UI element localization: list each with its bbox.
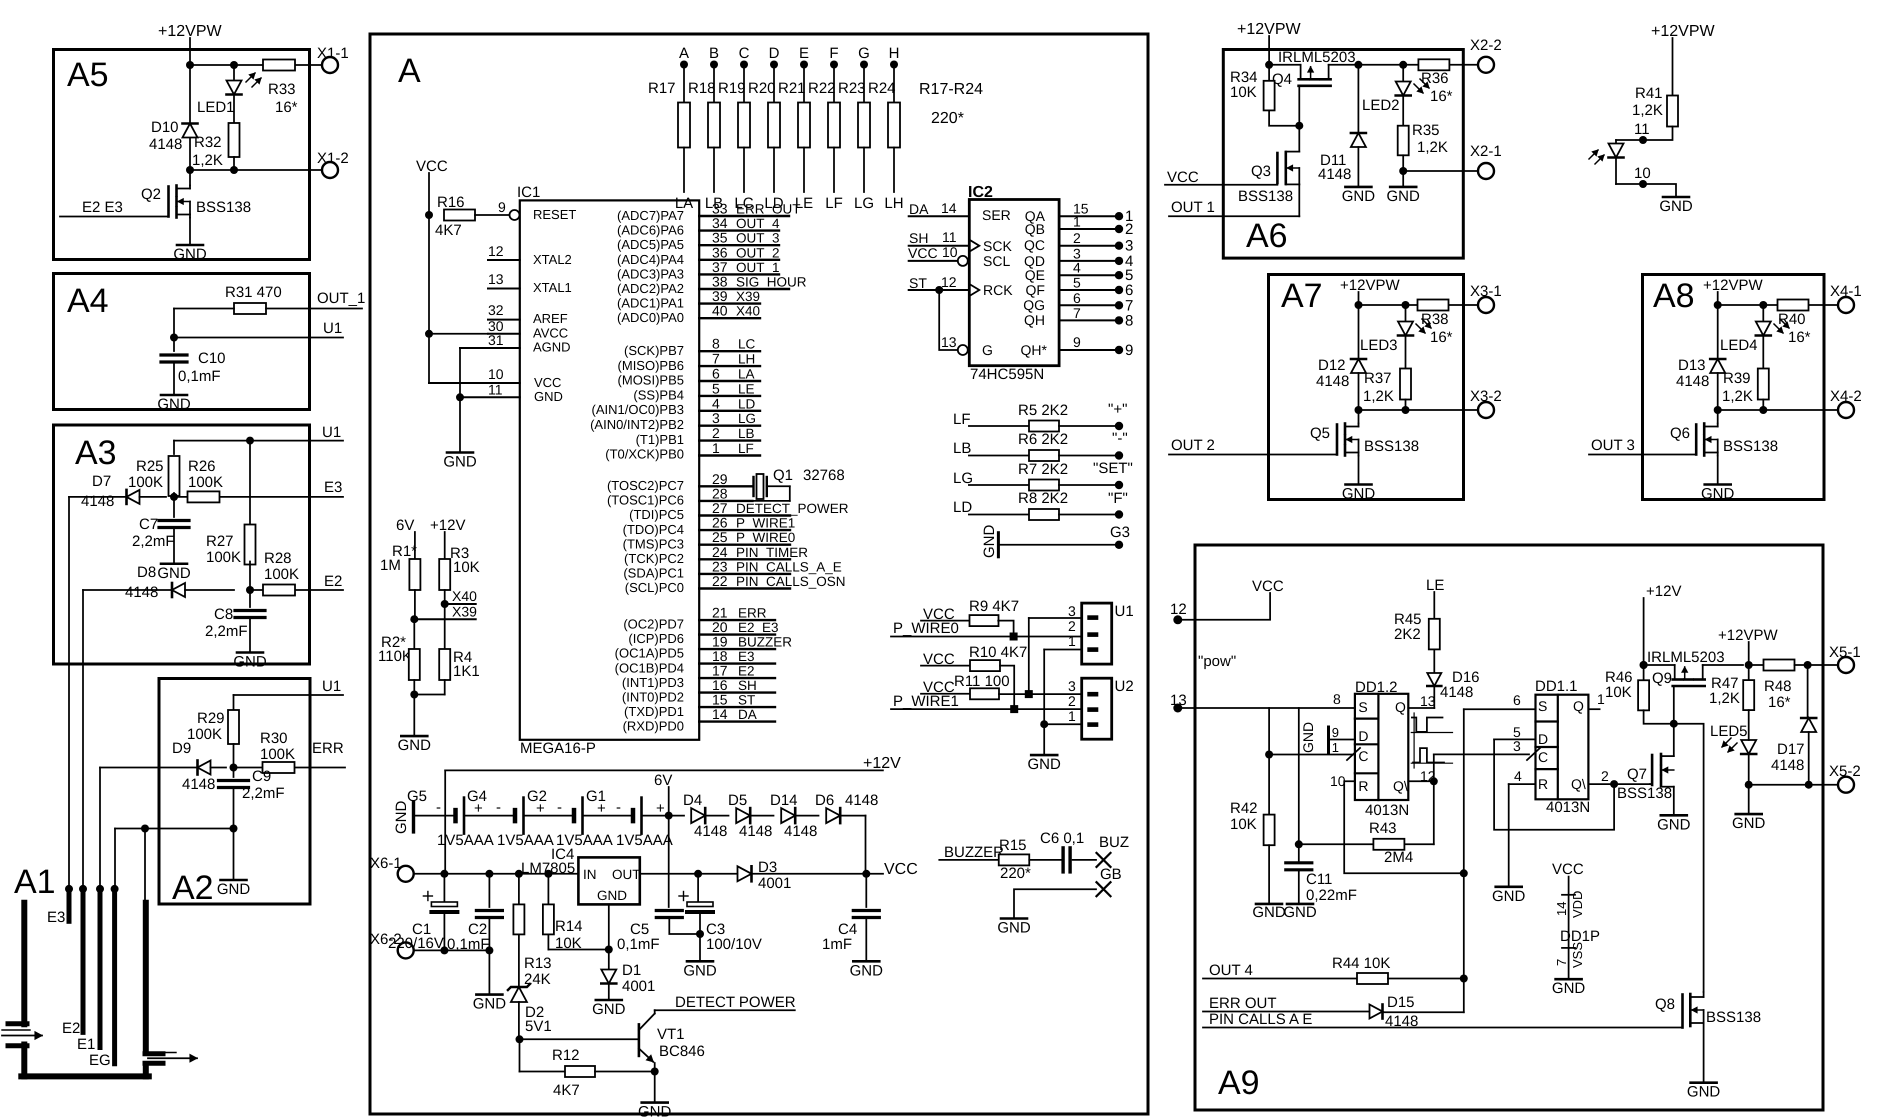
svg-text:PIN CALLS A E: PIN CALLS A E [1209,1011,1312,1028]
svg-text:3: 3 [712,410,720,426]
svg-text:4K7: 4K7 [435,222,462,239]
svg-text:4148: 4148 [182,776,215,793]
wire gate node to Q8 gate column [1674,724,1704,992]
svg-text:X39: X39 [736,289,760,304]
svg-text:RESET: RESET [533,207,576,222]
svg-text:+12V: +12V [430,517,465,534]
IC1 port A pin lines [699,215,789,217]
svg-text:R12: R12 [552,1047,580,1064]
wire C3 bottom junction [699,912,701,961]
terminal BUZ [1097,853,1111,867]
ground C11 [1287,903,1313,906]
ground Q7 [1661,814,1687,817]
svg-text:OUT_1: OUT_1 [317,290,365,307]
svg-text:LG: LG [738,411,756,426]
svg-text:100K: 100K [187,726,222,743]
svg-text:AGND: AGND [533,340,571,355]
svg-text:PIN_CALLS_A_E: PIN_CALLS_A_E [736,559,842,574]
wire DD1.2 Qb to R43/C-line [1408,780,1434,782]
svg-text:P_WIRE1: P_WIRE1 [893,693,959,710]
svg-text:100K: 100K [188,474,223,491]
wire R9 to pin2 [998,621,1013,637]
svg-text:6: 6 [1073,290,1081,306]
svg-text:D7: D7 [92,473,111,490]
svg-text:R10 4K7: R10 4K7 [969,644,1027,661]
connector U2 [1082,678,1112,739]
svg-text:D: D [769,45,780,62]
svg-text:+12VPW: +12VPW [1651,23,1715,40]
svg-text:GND: GND [592,1001,626,1018]
block A4 box [54,274,310,410]
ground U-connectors [1031,754,1057,757]
resistor R13 [518,874,520,905]
resistor R16 [425,211,433,219]
resistor R37 [1400,369,1411,400]
svg-text:1: 1 [1597,691,1605,707]
IC2 output QA-QH pins [1059,215,1114,217]
wire 13 branch to R43 node [1298,708,1300,844]
svg-text:(TCK)PC2: (TCK)PC2 [624,551,684,566]
svg-text:10K: 10K [1605,684,1632,701]
transistor Q8 BSS138 [1681,995,1684,1028]
svg-text:4148: 4148 [739,823,772,840]
svg-text:VCC: VCC [534,375,561,390]
svg-text:SIG_HOUR: SIG_HOUR [736,275,807,290]
capacitor C9 [233,768,235,778]
svg-text:10K: 10K [1230,816,1257,833]
svg-text:SH: SH [909,230,928,246]
wire R11 to U2 pin3 [999,693,1082,695]
svg-text:P_WIRE0: P_WIRE0 [736,530,795,545]
svg-text:D: D [1358,728,1368,744]
svg-text:100/10V: 100/10V [706,936,762,953]
svg-text:R27: R27 [206,533,234,550]
svg-text:3: 3 [1513,738,1521,754]
svg-text:SER: SER [982,207,1011,223]
svg-text:C7: C7 [139,516,158,533]
svg-text:4148: 4148 [1318,166,1351,183]
svg-text:2,2mF: 2,2mF [205,623,248,640]
svg-text:1K1: 1K1 [453,663,480,680]
wire D9 to A1/E1 [100,767,197,769]
wire C line to DD1.1 [1434,753,1529,755]
svg-text:(ADC3)PA3: (ADC3)PA3 [617,266,684,281]
ground D11 [1345,186,1371,189]
svg-text:R25: R25 [136,458,164,475]
svg-text:6V: 6V [396,517,414,534]
svg-text:P_WIRE0: P_WIRE0 [893,620,959,637]
svg-text:SCK: SCK [983,238,1012,254]
wire Q9 gate down [1673,686,1675,724]
svg-text:GND: GND [981,525,998,559]
svg-text:+12V: +12V [1646,583,1681,600]
svg-text:(ADC6)PA6: (ADC6)PA6 [617,223,684,238]
clock slash DD1.2 C [1347,748,1360,760]
svg-text:LD: LD [738,396,756,411]
resistor R29 [233,695,235,710]
svg-text:GND: GND [1701,486,1735,503]
svg-text:R38: R38 [1421,311,1449,328]
svg-text:1,2K: 1,2K [1363,388,1394,405]
svg-text:1mF: 1mF [822,936,852,953]
pin 30 AVCC [488,333,520,335]
svg-text:U1: U1 [322,424,341,441]
svg-text:GND: GND [157,565,191,582]
svg-text:6: 6 [712,366,720,382]
wire X6-1 rail [414,873,579,875]
ground C4 [865,918,867,961]
svg-text:VDD: VDD [1570,891,1585,918]
svg-text:OUT: OUT [612,867,641,882]
svg-text:6V: 6V [654,772,672,789]
wire R4 to R2 junction [414,694,444,696]
svg-text:C: C [1358,748,1368,764]
svg-text:7: 7 [1073,305,1081,321]
svg-text:ERR OUT: ERR OUT [1209,995,1277,1012]
resistor R40 [1778,300,1809,311]
svg-text:R20: R20 [748,80,776,97]
wire D8 to A1/E2 [83,589,171,591]
svg-text:LF: LF [953,411,971,428]
svg-text:E2: E2 [62,1020,80,1037]
svg-text:X6-1: X6-1 [370,855,402,872]
svg-text:100K: 100K [260,746,295,763]
wire U1 pin3 to R11 net [1029,617,1082,619]
svg-text:C: C [739,45,750,62]
pin 31 AGND [460,347,520,349]
ground C7 [173,528,175,564]
svg-text:LB: LB [738,426,755,441]
svg-text:R37: R37 [1364,370,1392,387]
svg-text:X39: X39 [452,604,477,620]
svg-text:39: 39 [712,288,728,304]
wire DD1.1 R to GND [1508,784,1510,887]
waveform glyph C [1413,748,1444,762]
svg-text:(AIN0/INT2)PB2: (AIN0/INT2)PB2 [590,417,684,432]
svg-text:X4-1: X4-1 [1830,283,1862,300]
svg-text:LH: LH [884,195,903,212]
LED receiver (photo) diode [1615,140,1617,143]
svg-text:R44 10K: R44 10K [1332,955,1390,972]
svg-text:GND: GND [1492,888,1526,905]
diode D17 4148 [1807,665,1809,717]
wire +12V riser to X6-1 rail [444,770,446,873]
svg-text:1: 1 [1068,633,1076,649]
svg-text:LA: LA [738,367,755,382]
svg-text:-: - [496,799,501,816]
resistor R35 [1398,126,1409,156]
svg-text:LH: LH [738,352,755,367]
svg-text:11: 11 [488,382,503,398]
svg-text:34: 34 [712,215,728,231]
svg-text:A3: A3 [75,434,117,472]
svg-text:(AIN1/OC0)PB3: (AIN1/OC0)PB3 [592,402,684,417]
svg-text:EG: EG [89,1052,111,1069]
svg-text:2: 2 [1073,230,1081,246]
svg-text:2M4: 2M4 [1384,849,1413,866]
svg-text:GND: GND [850,962,884,979]
svg-text:100K: 100K [128,474,163,491]
svg-text:GND: GND [217,881,251,898]
svg-text:(T0/XCK)PB0: (T0/XCK)PB0 [605,447,684,462]
svg-text:VCC: VCC [1167,169,1199,186]
svg-text:(SCK)PB7: (SCK)PB7 [624,343,684,358]
pin 12 XTAL2 [488,259,520,261]
svg-text:R18: R18 [688,80,716,97]
svg-text:(TDO)PC4: (TDO)PC4 [623,522,684,537]
svg-text:16*: 16* [1430,329,1453,346]
svg-text:X1-2: X1-2 [317,150,349,167]
LED LED3 [1405,305,1407,321]
svg-text:5: 5 [712,380,720,396]
svg-text:+: + [474,800,483,817]
wire GB to GND [1014,889,1096,918]
ground Q6 [1717,456,1719,485]
svg-text:10: 10 [942,244,958,260]
svg-text:E3: E3 [738,649,755,664]
electrode E3 [67,889,72,921]
svg-text:BSS138: BSS138 [196,199,251,216]
svg-text:LF: LF [825,195,843,212]
svg-text:8: 8 [712,336,720,352]
svg-text:E2: E2 [324,573,342,590]
svg-text:8: 8 [1125,312,1133,329]
wire DD1.1 Qb to Q7 gate [1650,783,1652,785]
wire DD1.2 R pin routing [1344,781,1464,873]
wire R35 to X2-1 [1399,167,1407,175]
svg-text:(OC1B)PD4: (OC1B)PD4 [615,660,684,675]
svg-text:DA: DA [909,201,929,217]
svg-text:5: 5 [1073,275,1081,291]
svg-text:GND: GND [534,389,563,404]
resistor R3 [444,532,446,559]
svg-text:0,1mF: 0,1mF [447,936,490,953]
tank left wall [21,903,27,1025]
svg-text:S: S [1358,699,1367,715]
svg-text:110K: 110K [378,648,412,665]
IC2 74HC595N body [969,200,1059,366]
svg-text:P_WIRE1: P_WIRE1 [736,516,795,531]
wire E3 row [170,493,178,501]
svg-text:1: 1 [1073,214,1081,230]
ground A4 [173,362,175,395]
ground DD1P [1556,978,1582,981]
svg-text:R: R [1538,776,1548,792]
svg-text:Q2: Q2 [141,186,161,203]
svg-text:GND: GND [1732,815,1766,832]
svg-text:2: 2 [1068,618,1076,634]
LED LED4 [1762,305,1764,321]
ground C3/C5 [687,960,713,963]
svg-text:IC1: IC1 [517,184,540,201]
wire D3 to VCC [753,873,884,875]
svg-text:D13: D13 [1678,357,1706,374]
svg-text:+12VPW: +12VPW [1340,277,1400,294]
resistor R33 [263,60,295,71]
ground C2 [488,918,490,995]
svg-text:C11: C11 [1306,871,1332,888]
svg-text:X5-1: X5-1 [1829,644,1861,661]
svg-text:DETECT POWER: DETECT POWER [675,994,796,1011]
svg-text:11: 11 [1634,121,1650,138]
svg-text:E2: E2 [738,664,755,679]
wire R10 to P_WIRE1 junction [1000,666,1014,710]
svg-text:BUZZER: BUZZER [738,635,792,650]
svg-text:R14: R14 [555,918,583,935]
svg-text:29: 29 [712,471,728,487]
svg-text:R17-R24: R17-R24 [919,81,983,98]
svg-text:220*: 220* [931,110,964,127]
block A5 box [54,50,310,260]
svg-text:OUT 3: OUT 3 [1591,437,1635,454]
svg-text:(INT0)PD2: (INT0)PD2 [622,690,684,705]
svg-text:3: 3 [1068,603,1076,619]
svg-text:(MOSI)PB5: (MOSI)PB5 [618,373,684,388]
svg-text:(T1)PB1: (T1)PB1 [636,432,684,447]
svg-text:(ADC4)PA4: (ADC4)PA4 [617,252,684,267]
svg-text:-: - [616,799,621,816]
svg-text:GND: GND [473,996,507,1013]
svg-text:9: 9 [1125,342,1133,359]
connector X5-2 [1838,777,1854,793]
svg-text:"SET": "SET" [1093,460,1133,477]
svg-text:23: 23 [712,558,728,574]
tank right wall [143,903,149,1052]
svg-text:Q: Q [1395,699,1406,715]
pin 14 VDD DD1P [1562,894,1575,896]
svg-text:ERR: ERR [312,740,344,757]
connector X3-1 [1478,297,1494,313]
svg-text:13: 13 [941,334,957,350]
wire LM7805 GND pin down [608,905,610,970]
svg-text:24: 24 [712,544,728,560]
svg-text:4: 4 [1514,768,1522,784]
svg-text:Q3: Q3 [1251,163,1271,180]
svg-text:D12: D12 [1318,357,1346,374]
svg-text:GND: GND [1657,816,1691,833]
svg-text:LED3: LED3 [1360,337,1398,354]
svg-text:4: 4 [712,395,720,411]
svg-text:26: 26 [712,515,728,531]
ground C8 [249,618,251,653]
ground R42 [1256,903,1282,906]
svg-text:31: 31 [488,332,504,348]
svg-text:0,1mF: 0,1mF [178,368,221,385]
block A7 box [1269,275,1464,500]
svg-text:(OC2)PD7: (OC2)PD7 [623,617,684,632]
svg-text:LF: LF [738,441,754,456]
svg-text:VSS: VSS [1570,942,1585,968]
svg-text:D15: D15 [1387,994,1415,1011]
svg-text:QG: QG [1023,297,1045,313]
wire ST to G pin [939,290,958,350]
ground VT1 [642,1101,668,1104]
svg-text:13: 13 [488,271,504,287]
diode D3 [738,866,752,881]
svg-text:OUT 4: OUT 4 [1209,962,1253,979]
svg-text:4148: 4148 [694,823,727,840]
svg-text:GND: GND [597,888,627,903]
wire U1 to R25 top [174,440,250,442]
svg-text:R28: R28 [264,550,292,567]
svg-text:16*: 16* [275,99,298,116]
wire D16 to DD1.2 Q [1433,687,1435,708]
svg-text:D: D [1538,731,1548,747]
pin 13 XTAL1 [488,288,520,290]
svg-text:G3: G3 [1110,524,1130,541]
ground A5 [189,218,191,246]
svg-text:G5: G5 [407,788,427,805]
svg-text:BUZ: BUZ [1099,834,1129,851]
wire A8 top rail [1714,301,1722,309]
diode D13 4148 [1717,305,1719,358]
svg-text:GND: GND [1659,198,1693,215]
wire AGND-GND join [459,348,461,397]
svg-text:4001: 4001 [758,875,791,892]
capacitor C1 220/16V [443,874,445,901]
svg-text:A6: A6 [1246,217,1288,255]
connector X2-1 [1478,163,1494,179]
resistor R14 [547,874,549,905]
pin 11 GND [460,396,520,398]
svg-text:C6 0,1: C6 0,1 [1040,830,1084,847]
ground buzzer [1001,917,1027,920]
svg-text:U1: U1 [322,678,341,695]
wire X5-2 rail [1745,781,1753,789]
transistor Q5 BSS138 [1358,410,1360,424]
ground Q5 [1358,456,1360,485]
wire LM7805 OUT rail [640,873,738,875]
svg-text:38: 38 [712,274,728,290]
diode D15 4148 [1370,1005,1383,1019]
svg-text:A7: A7 [1281,277,1323,315]
svg-text:+12V: +12V [863,755,901,772]
svg-text:9: 9 [1332,725,1339,740]
svg-text:1,2K: 1,2K [1417,139,1448,156]
svg-text:RCK: RCK [983,282,1013,298]
wire A6 top rail left [1265,61,1273,69]
svg-text:A5: A5 [67,56,109,94]
svg-text:C10: C10 [198,350,226,367]
svg-text:GND: GND [683,962,717,979]
transistor Q3 BSS138 [1286,151,1300,153]
wire +12V to Q9 node [1640,661,1648,669]
svg-text:BSS138: BSS138 [1706,1009,1761,1026]
svg-text:27: 27 [712,500,728,516]
svg-text:(MISO)PB6: (MISO)PB6 [618,358,684,373]
capacitor C8 [249,590,251,607]
svg-text:32768: 32768 [803,467,845,484]
svg-text:D9: D9 [172,740,191,757]
svg-text:100K: 100K [206,549,241,566]
wire Q9 drain to +12VPW node [1703,664,1743,666]
diode D16 4148 [1433,649,1435,672]
svg-text:XTAL1: XTAL1 [533,280,572,295]
svg-text:-: - [436,799,441,816]
resistor R36 [1418,59,1449,70]
svg-text:(TOSC2)PC7: (TOSC2)PC7 [607,478,684,493]
svg-text:(SDA)PC1: (SDA)PC1 [623,566,684,581]
svg-text:(OC1A)PD5: (OC1A)PD5 [615,646,684,661]
tank outlet pipe [145,1051,163,1056]
svg-text:R8 2K2: R8 2K2 [1018,490,1068,507]
svg-text:5V1: 5V1 [525,1018,552,1035]
svg-text:(ADC2)PA2: (ADC2)PA2 [617,281,684,296]
transistor Q6 BSS138 [1717,410,1719,424]
svg-text:(ADC1)PA1: (ADC1)PA1 [617,296,684,311]
svg-text:3: 3 [1068,678,1076,694]
wire D7 to A1/E3 [69,496,126,498]
